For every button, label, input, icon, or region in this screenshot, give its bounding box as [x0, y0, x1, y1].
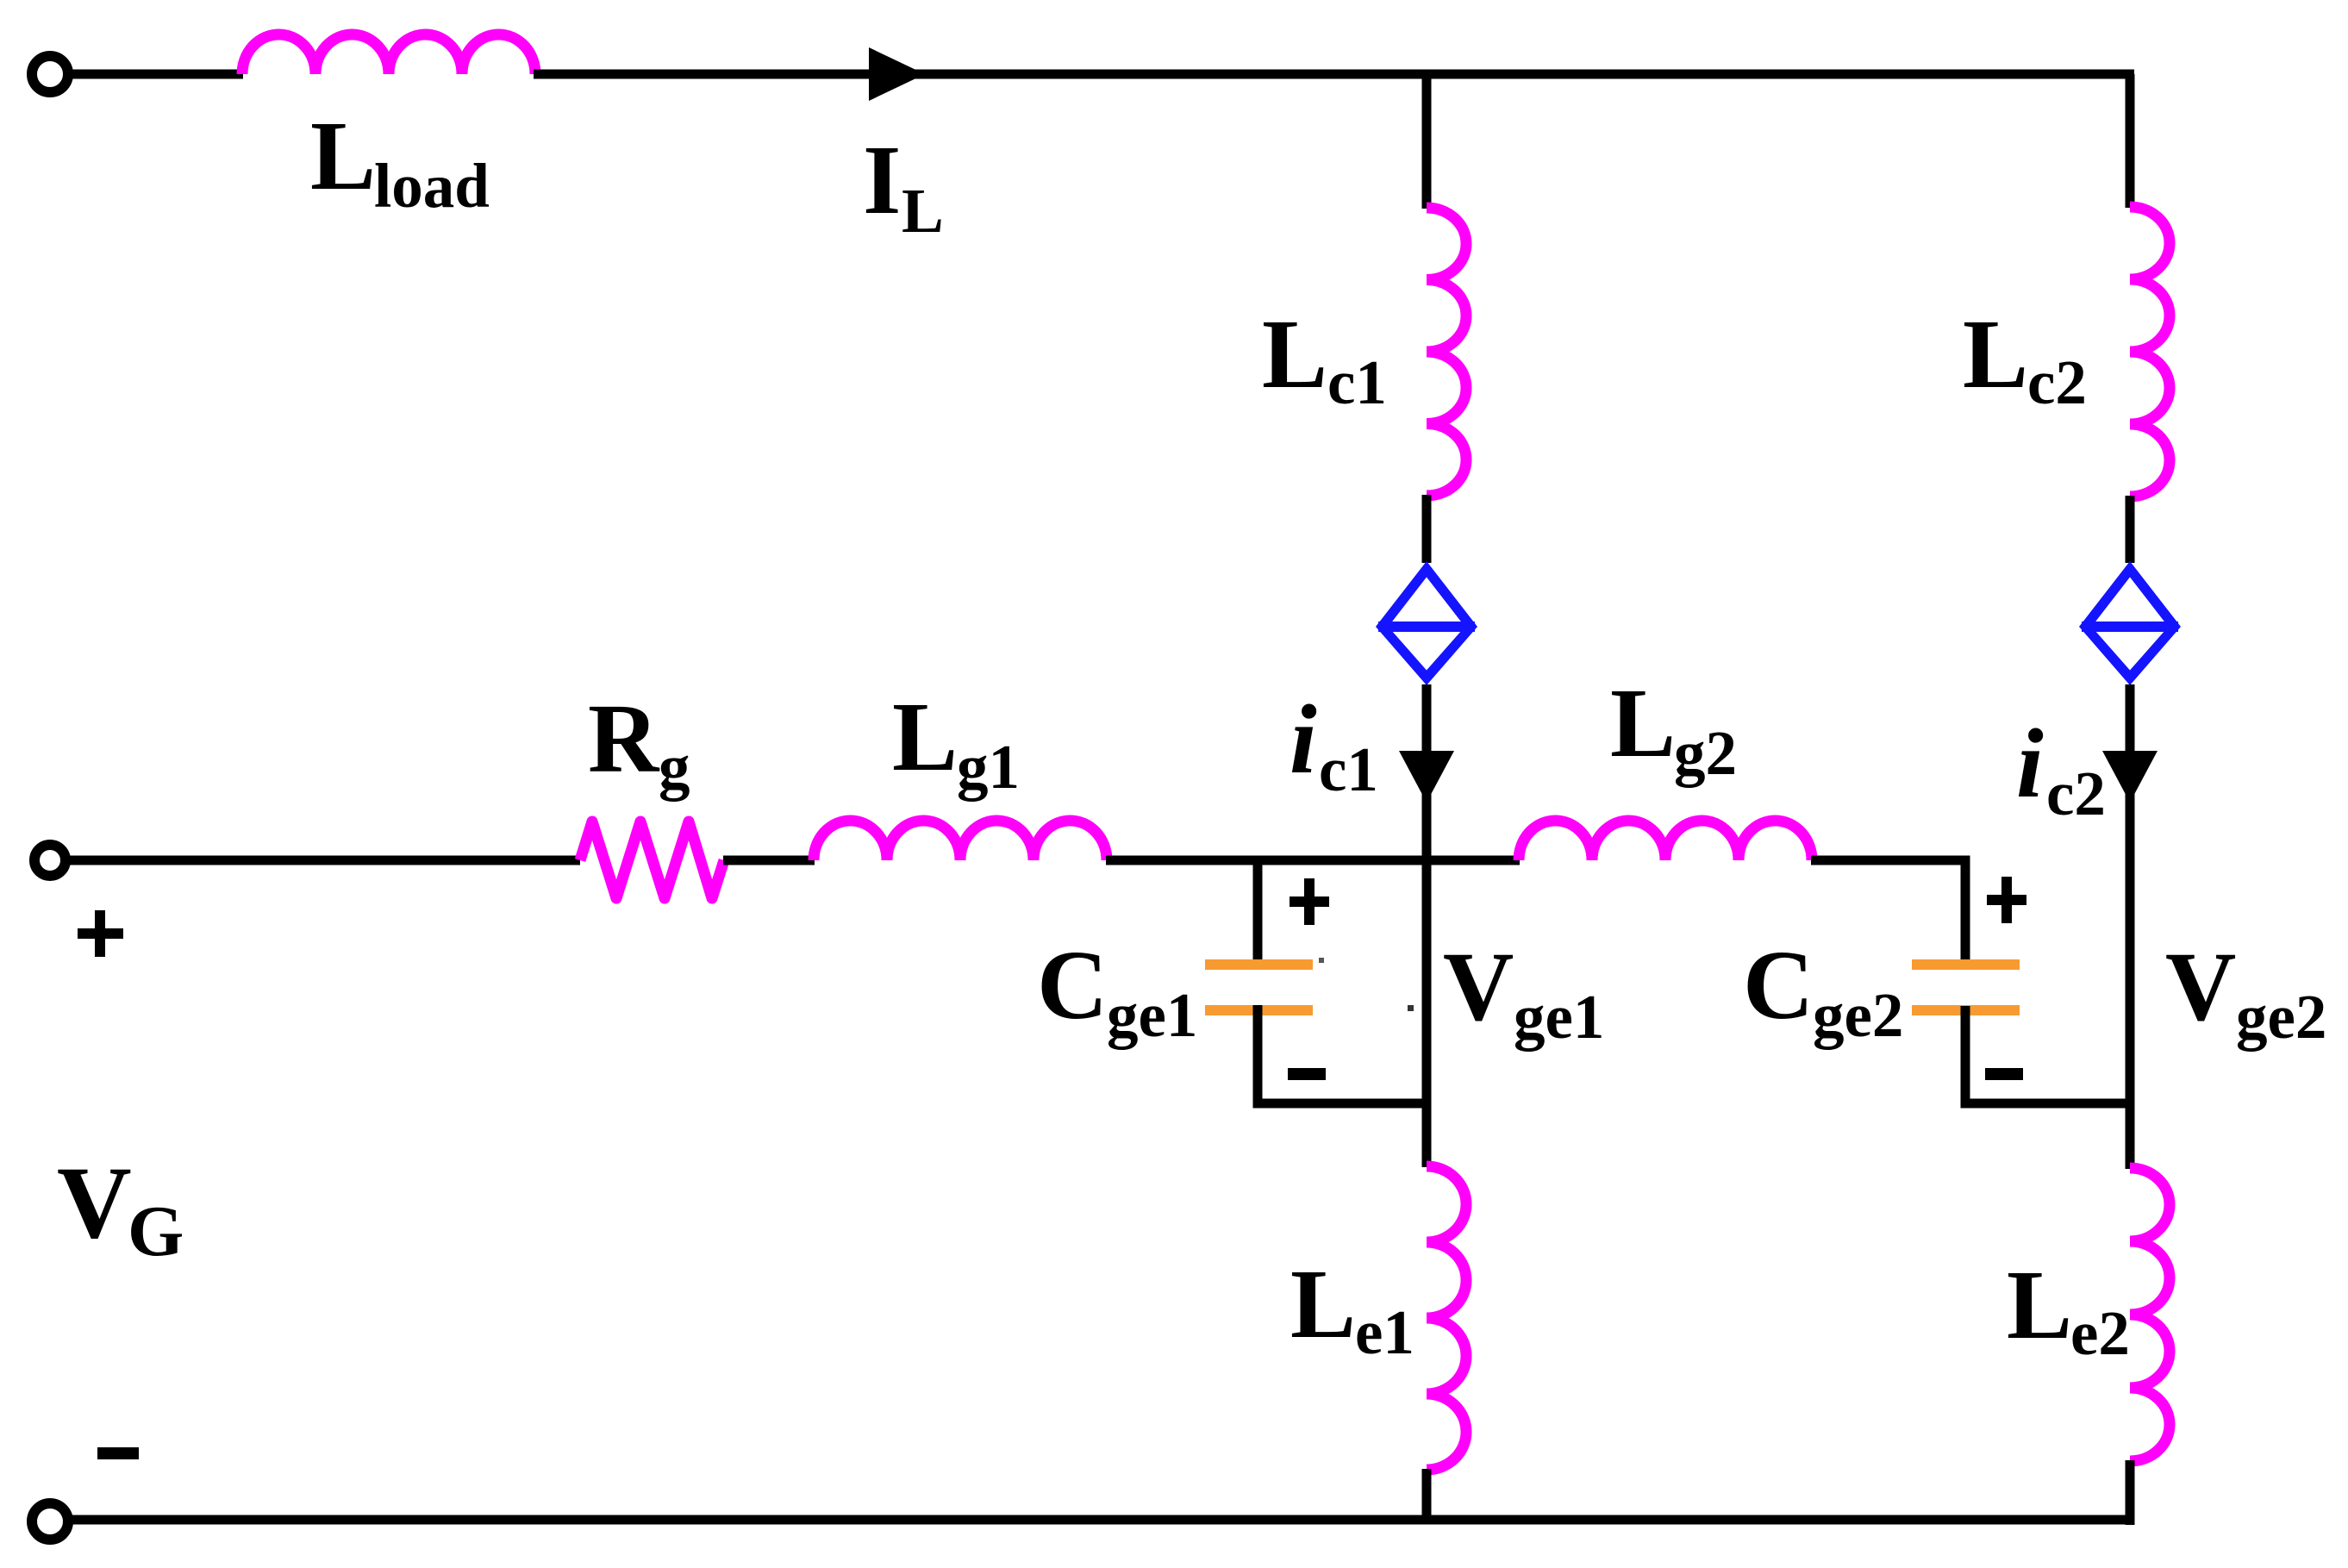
- svg-text:Lc2: Lc2: [1963, 299, 2087, 417]
- dependent current source U2 diamond: [2079, 561, 2181, 685]
- svg-text:Le1: Le1: [1290, 1249, 1414, 1367]
- arrowhead IL current: [869, 47, 925, 101]
- svg-text:i: i: [2016, 709, 2044, 818]
- wire Cge2 stub bottom and bracket to emitter node: [1965, 1006, 2130, 1103]
- artifact dot near Vge1: [1408, 1005, 1414, 1011]
- minus sign VG: [97, 1447, 139, 1459]
- inductor Lc2: [2130, 207, 2170, 497]
- wire bottom rail: [72, 1515, 2134, 1525]
- terminal gate-left: [34, 845, 66, 876]
- wire branch1 above diamond: [1422, 495, 1432, 563]
- svg-text:Cge2: Cge2: [1743, 930, 1903, 1050]
- terminal bottom-left: [32, 1503, 68, 1540]
- wire gate right with corner down to Cge2: [1811, 860, 1965, 960]
- wire Cge1 stub bottom and bracket to emitter node: [1258, 1005, 1427, 1103]
- wire gate between Lg1 and Lg2: [1106, 856, 1520, 865]
- dependent current source U1 diamond: [1376, 561, 1477, 685]
- svg-text:VG: VG: [57, 1145, 184, 1271]
- wire Cge1 stub top: [1253, 860, 1263, 960]
- wire branch1 below diamond: [1422, 684, 1432, 1167]
- wire branch2 above diamond: [2126, 496, 2135, 563]
- wire branch2 emitter bottom: [2126, 1460, 2135, 1525]
- wire branch1 collector top: [1422, 74, 1432, 209]
- svg-text:i: i: [1290, 684, 1317, 794]
- arrowhead ic2 current: [2102, 751, 2158, 803]
- wire gate rail left: [69, 856, 580, 865]
- svg-text:Le2: Le2: [2007, 1250, 2130, 1368]
- inductor Lg2: [1519, 821, 1812, 860]
- wire top rail right: [534, 70, 2134, 79]
- plus sign Vge2: [1987, 877, 2026, 923]
- inductor Lg1: [814, 821, 1107, 860]
- wire branch2 below diamond: [2126, 684, 2135, 1169]
- capacitor Cge1: [1205, 959, 1313, 1015]
- inductor Lc1: [1427, 208, 1466, 496]
- svg-text:Lc1: Lc1: [1262, 299, 1387, 417]
- inductor Le1: [1427, 1166, 1466, 1470]
- wire gate between Rg and Lg1: [723, 856, 815, 865]
- svg-text:c2: c2: [2046, 759, 2106, 828]
- capacitor Cge2: [1912, 959, 2020, 1015]
- svg-text:Cge1: Cge1: [1037, 930, 1197, 1050]
- inductor Lload: [242, 34, 535, 74]
- svg-text:Lload: Lload: [310, 101, 490, 221]
- minus sign Vge2: [1985, 1068, 2023, 1080]
- svg-text:Lg2: Lg2: [1610, 668, 1737, 788]
- wire branch2 collector top: [2126, 74, 2135, 208]
- resistor Rg: [580, 821, 724, 898]
- svg-text:IL: IL: [863, 125, 944, 246]
- svg-text:Vge1: Vge1: [1443, 932, 1604, 1052]
- svg-text:Lg1: Lg1: [892, 682, 1020, 802]
- svg-text:Vge2: Vge2: [2165, 932, 2326, 1052]
- plus sign Vge1: [1290, 878, 1329, 925]
- minus sign Vge1: [1288, 1068, 1326, 1080]
- wire top rail left: [72, 70, 243, 79]
- svg-text:c1: c1: [1319, 734, 1378, 804]
- svg-text:Rg: Rg: [588, 684, 690, 802]
- inductor Le2: [2130, 1168, 2170, 1461]
- artifact dot near Cge1: [1319, 958, 1324, 963]
- terminal top-left: [32, 56, 68, 92]
- wire branch1 emitter bottom: [1422, 1469, 1432, 1520]
- plus sign VG: [78, 910, 123, 957]
- arrowhead ic1 current: [1399, 751, 1454, 803]
